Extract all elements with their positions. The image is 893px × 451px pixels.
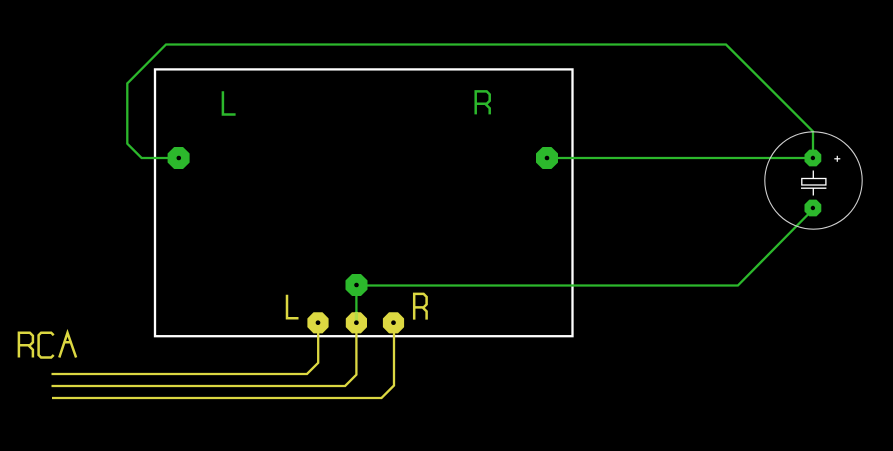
wire: green stub from ground pad down to middle RCA pad — [355, 286, 357, 313]
pad R (right green pad) — [537, 148, 558, 169]
battery plus pad — [805, 150, 820, 165]
pad L (left green pad) — [168, 148, 189, 169]
label RCA: letter C — [39, 333, 54, 358]
RCA pad L (yellow) — [308, 313, 328, 333]
wire: net L (left pad around top to battery plus pad) — [127, 45, 813, 159]
yellow wire from RCA pad L — [52, 323, 319, 374]
wire: ground net (center pad to battery minus pad) — [356, 210, 813, 286]
green wire overlap on center pad — [355, 312, 358, 321]
label L (yellow) — [287, 295, 299, 319]
RCA pad center (yellow) — [347, 313, 367, 333]
pad ground (center green pad) — [346, 275, 367, 296]
yellow wire from RCA pad center — [52, 323, 357, 386]
RCA pad R (yellow) — [384, 313, 404, 333]
battery minus pad — [805, 200, 820, 215]
label R (green, top-right) — [476, 91, 490, 114]
label L (green, top-left) — [223, 91, 236, 114]
label R (yellow) — [414, 294, 426, 320]
label RCA: letter A — [59, 333, 76, 358]
label RCA: letter R — [19, 333, 33, 358]
plus sign label — [834, 156, 840, 162]
yellow wire from RCA pad R — [52, 323, 394, 398]
board outline rectangle — [155, 69, 573, 336]
battery outline circle — [765, 132, 862, 229]
battery cell symbol — [801, 171, 826, 196]
wire: net R (right pad to battery plus pad) — [547, 157, 813, 159]
